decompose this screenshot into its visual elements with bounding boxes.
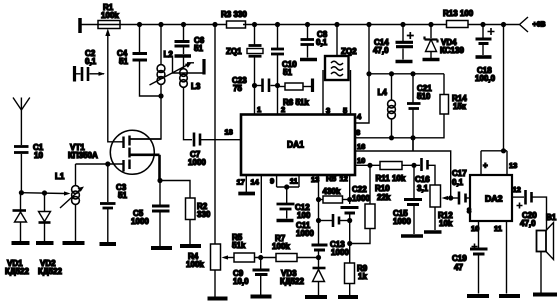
tuning arrow across L2 and L3 (150, 64, 191, 86)
resistor R5 (234, 253, 255, 262)
node dot antenna input (19, 190, 24, 195)
ground bar under C15 (401, 234, 423, 238)
L1 tuning arrow (60, 188, 82, 208)
ground bar under L1 (63, 241, 85, 245)
ground bar under C19 (467, 294, 489, 298)
svg-text:100: 100 (297, 211, 311, 220)
ground bar (vertical) right of R6 (311, 79, 314, 93)
svg-text:47,0: 47,0 (520, 219, 536, 228)
resistor R1 (98, 21, 120, 29)
svg-text:1000: 1000 (296, 229, 314, 238)
diode VD3 (318, 258, 320, 268)
svg-text:13: 13 (509, 161, 517, 170)
svg-text:ZQ1: ZQ1 (226, 47, 242, 56)
svg-text:12: 12 (340, 174, 348, 183)
wire top rail right section (468, 24, 517, 26)
svg-text:51: 51 (283, 68, 292, 77)
resistor R7 (276, 254, 297, 262)
resistor R3 (227, 21, 246, 28)
ground bar under VD1 (12, 241, 30, 245)
svg-text:+: + (483, 161, 488, 170)
capacitor C13 (312, 244, 328, 247)
svg-text:510: 510 (417, 92, 431, 101)
svg-text:51: 51 (118, 191, 127, 200)
capacitor C8 (307, 25, 309, 39)
svg-text:10,0: 10,0 (233, 277, 249, 286)
capacitor C9 (260, 258, 262, 270)
IC DA2 (470, 175, 512, 221)
ground bar under C9 (251, 295, 272, 299)
node dot C6 tap on rail (181, 22, 186, 27)
wire supply to pin 4 (355, 25, 369, 124)
svg-text:3,1: 3,1 (417, 184, 429, 193)
svg-text:47: 47 (454, 263, 463, 272)
node dot VD4 tap on rail (428, 22, 433, 27)
svg-text:16: 16 (357, 142, 365, 151)
node dot VD2 branch (42, 190, 47, 195)
svg-text:100,0: 100,0 (475, 74, 496, 83)
resistor R11 (380, 162, 402, 170)
svg-text:R6 51k: R6 51k (283, 98, 309, 107)
ground bar under pins 17 14 (238, 192, 255, 196)
node dot L2 tap on rail (158, 22, 163, 27)
svg-text:8: 8 (467, 206, 471, 215)
capacitor C2 (73, 66, 76, 82)
capacitor C3 (107, 164, 109, 202)
wire L1 to gate 2 (76, 163, 105, 165)
terminal +6B (517, 17, 528, 32)
ground bar under VD4 (423, 58, 440, 62)
node dot R6 junction (275, 83, 280, 88)
svg-text:R10: R10 (375, 184, 390, 193)
svg-text:R8: R8 (326, 174, 337, 183)
svg-text:47,0: 47,0 (373, 46, 389, 55)
svg-text:10k: 10k (439, 219, 453, 228)
svg-text:17: 17 (237, 178, 245, 187)
svg-text:L4: L4 (378, 88, 388, 97)
wire DA2 supply drop (503, 25, 505, 151)
svg-text:C17: C17 (452, 169, 467, 178)
R1 wiper arrowhead (105, 29, 110, 37)
node dot R8 left (316, 197, 321, 202)
node dot pin4 supply tap on rail (366, 22, 371, 27)
svg-text:L1: L1 (55, 172, 65, 181)
wire pin 14 down to R5 junction (260, 175, 262, 253)
svg-text:1000: 1000 (188, 158, 206, 167)
ground bar under C8 (300, 58, 317, 62)
svg-text:100k: 100k (272, 242, 290, 251)
wire L4/C21/R14 top bus (369, 73, 444, 75)
svg-text:1000: 1000 (331, 248, 349, 257)
zener diode VD4 (430, 25, 432, 39)
speaker B1 (537, 231, 547, 252)
R12 wiper arrow (444, 197, 451, 199)
svg-text:C22: C22 (352, 185, 367, 194)
node dot C10 tap on rail (275, 22, 280, 27)
svg-text:10: 10 (34, 151, 43, 160)
capacitor C22 (341, 206, 359, 209)
wire pin 9 stub (276, 175, 278, 187)
node dot C12 tap (284, 184, 289, 189)
svg-text:330: 330 (197, 210, 211, 219)
potentiometer R4 (211, 244, 221, 270)
svg-text:В1: В1 (546, 213, 557, 222)
svg-text:430k: 430k (323, 187, 341, 196)
capacitor C18 electrolytic (482, 25, 484, 39)
node dot C4 tap on rail (137, 22, 142, 27)
svg-text:КД522: КД522 (280, 277, 304, 286)
ceramic filter ZQ2 (336, 25, 338, 57)
svg-text:ZQ2: ZQ2 (341, 47, 357, 56)
svg-text:0,1: 0,1 (452, 178, 464, 187)
inductor L2 (160, 25, 162, 65)
wire DA2 supply top (481, 150, 507, 152)
svg-text:R3 330: R3 330 (221, 10, 247, 19)
capacitor C23 (255, 85, 262, 87)
svg-text:1000: 1000 (131, 217, 149, 226)
shield of L3 to ground (173, 58, 204, 74)
resistor R9 (349, 244, 351, 264)
svg-text:100k: 100k (101, 11, 119, 20)
wire stub C21 line crossing (412, 138, 414, 151)
wire connector pins 9-11 (277, 186, 299, 188)
potentiometer R12 (430, 185, 441, 207)
svg-text:51: 51 (194, 44, 203, 53)
svg-text:11: 11 (290, 177, 298, 186)
svg-text:18: 18 (225, 128, 233, 137)
ground bar under C3 (100, 242, 117, 246)
svg-text:4: 4 (357, 112, 362, 121)
svg-text:100k: 100k (186, 260, 204, 269)
wire top rail middle section (243, 24, 447, 26)
wire R1 wiper vertical (108, 31, 123, 142)
wire tank to drain (130, 85, 161, 139)
svg-text:3: 3 (326, 106, 330, 115)
svg-text:1000: 1000 (352, 194, 370, 203)
wire pin 10 (355, 164, 380, 166)
wire C22 bottom jog to R10 (350, 229, 370, 244)
capacitor C21 (412, 74, 414, 103)
inductor L4 (388, 100, 396, 108)
ground bar under C5 (151, 246, 172, 250)
svg-text:51k: 51k (232, 241, 246, 250)
inductor L3 (183, 58, 185, 69)
svg-text:DA1: DA1 (287, 140, 305, 151)
svg-text:C16: C16 (415, 175, 430, 184)
capacitor C20 electrolytic (524, 190, 527, 205)
wire pin 11 DA2 down (506, 221, 508, 294)
capacitor C10 (277, 25, 279, 49)
node dot DA2 supply tap on rail (501, 22, 506, 27)
ground bar under R9 (338, 295, 358, 299)
ground bar under speaker (533, 293, 557, 297)
ground bar (vertical) of L3 shield (202, 59, 205, 75)
diode VD2 (44, 193, 46, 211)
svg-text:10: 10 (357, 156, 365, 165)
ZQ2 right lead to pin 5 (350, 70, 352, 115)
svg-text:DA2: DA2 (485, 195, 503, 204)
wire pin 11 stub (298, 175, 300, 187)
node dot gate2 junction (105, 161, 110, 166)
svg-text:22k: 22k (377, 193, 391, 202)
wire top supply rail left section (81, 24, 227, 26)
svg-text:15к: 15к (453, 102, 467, 111)
inductor L1 (75, 164, 77, 185)
node dot C11 right (347, 218, 352, 223)
ground bar under VD2 (36, 241, 54, 245)
wire input node to L1 (21, 192, 65, 195)
svg-text:L3: L3 (191, 82, 201, 91)
node dot C18 tap on rail (480, 22, 485, 27)
crystal ZQ1 (254, 25, 256, 45)
svg-text:1: 1 (257, 105, 261, 114)
svg-text:1000: 1000 (393, 217, 411, 226)
transistor VT1 dual-gate MOSFET (110, 130, 154, 174)
capacitor C14 electrolytic (402, 25, 404, 42)
node dot R8 right (347, 197, 352, 202)
wire pin 16 to volume node (355, 151, 451, 198)
svg-text:КП350А: КП350А (68, 151, 98, 160)
node dot C15 tap (411, 163, 416, 168)
capacitor C5 (159, 181, 161, 205)
svg-text:11: 11 (494, 224, 502, 233)
svg-text:R13 100: R13 100 (443, 9, 474, 18)
resistor R6 (278, 86, 286, 88)
resistor R14 (443, 74, 445, 95)
svg-text:КС139: КС139 (440, 46, 464, 55)
ground bar under C18 (476, 55, 492, 59)
svg-text:R11 10k: R11 10k (376, 174, 406, 183)
capacitor C11 (319, 220, 333, 222)
svg-text:12: 12 (513, 185, 521, 194)
svg-text:2: 2 (281, 105, 285, 114)
node dot C8 tap on rail (305, 22, 310, 27)
svg-text:1k: 1k (358, 272, 367, 281)
ZQ2 left lead to pin 3 (322, 70, 324, 115)
capacitor C16 (420, 158, 423, 171)
wire pin 12 DA2 out (512, 196, 524, 198)
ground bar under C12 (277, 219, 294, 223)
svg-text:51: 51 (119, 57, 128, 66)
terminal ground bar left of R1 (78, 18, 82, 33)
wire C20 to speaker (533, 197, 547, 230)
node dot tank bottom (158, 93, 163, 98)
node dot pin14/C9 junction (258, 255, 263, 260)
resistor R8 (319, 199, 324, 201)
svg-text:8: 8 (356, 128, 360, 137)
capacitor C12 (286, 187, 288, 203)
wire long vertical to R4 (214, 25, 216, 245)
node dot C14 tap on rail (400, 22, 405, 27)
svg-text:C19: C19 (452, 254, 467, 263)
svg-text:75: 75 (233, 84, 242, 93)
svg-text:0,1: 0,1 (316, 38, 328, 47)
IC DA1 (241, 115, 355, 176)
resistor R13 (447, 21, 469, 28)
wire pin 10 DA2 down (478, 221, 480, 248)
svg-text:5: 5 (343, 106, 347, 115)
core bar between C6 and L3 (175, 54, 192, 57)
node dot C23 left (252, 83, 257, 88)
wire pins 17 14 to ground (245, 175, 247, 192)
svg-text:КД522: КД522 (5, 267, 29, 276)
capacitor C15 (413, 165, 415, 198)
capacitor C17 (453, 197, 458, 199)
node dot R7 right (316, 255, 321, 260)
node dot ZQ2 tap on rail (334, 22, 339, 27)
node dot ZQ1 tap on rail (252, 22, 257, 27)
node dot R4 feed tap on rail (212, 22, 217, 27)
wire pin 13 down (318, 175, 320, 244)
resistor R2 (160, 181, 190, 199)
ground bar under C14 (396, 60, 413, 64)
capacitor C6 (183, 25, 185, 41)
ground bar under VD3 (305, 295, 327, 299)
diode VD1 (20, 193, 22, 210)
svg-text:9: 9 (270, 177, 274, 186)
ground bar under R4 (208, 297, 228, 301)
svg-text:14: 14 (251, 178, 260, 187)
capacitor C19 electrolytic (472, 244, 478, 250)
ground bar under R2 (180, 244, 201, 248)
svg-text:0,1: 0,1 (85, 57, 97, 66)
svg-text:КД522: КД522 (38, 267, 62, 276)
node dot C11 left (316, 218, 321, 223)
node dot L4 rail branch (366, 71, 371, 76)
node dot source junction (157, 178, 162, 183)
capacitor C4 (139, 25, 141, 54)
wire pin 12 down (349, 175, 351, 204)
capacitor C7 (193, 133, 196, 147)
ground bar under DA2 pin 11 (499, 294, 520, 298)
svg-text:+6В: +6В (533, 22, 546, 29)
R4 wiper arrow (224, 257, 234, 259)
capacitor C1 (20, 116, 22, 145)
antenna W1 (20, 98, 22, 117)
resistor R10 (369, 165, 371, 204)
ground bar under R12 (424, 230, 442, 234)
